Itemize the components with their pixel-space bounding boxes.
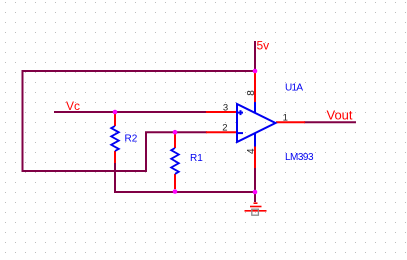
svg-text:U1A: U1A: [285, 83, 303, 94]
svg-text:4: 4: [246, 148, 257, 154]
svg-text:3: 3: [223, 102, 228, 113]
svg-text:8: 8: [246, 90, 257, 96]
svg-text:5v: 5v: [257, 39, 270, 53]
svg-text:1: 1: [283, 112, 288, 123]
svg-text:R1: R1: [190, 153, 203, 164]
svg-text:R2: R2: [125, 134, 138, 145]
svg-text:Vout: Vout: [327, 108, 353, 123]
svg-text:LM393: LM393: [285, 152, 314, 163]
svg-text:Vc: Vc: [66, 99, 80, 113]
svg-text:2: 2: [222, 123, 227, 134]
